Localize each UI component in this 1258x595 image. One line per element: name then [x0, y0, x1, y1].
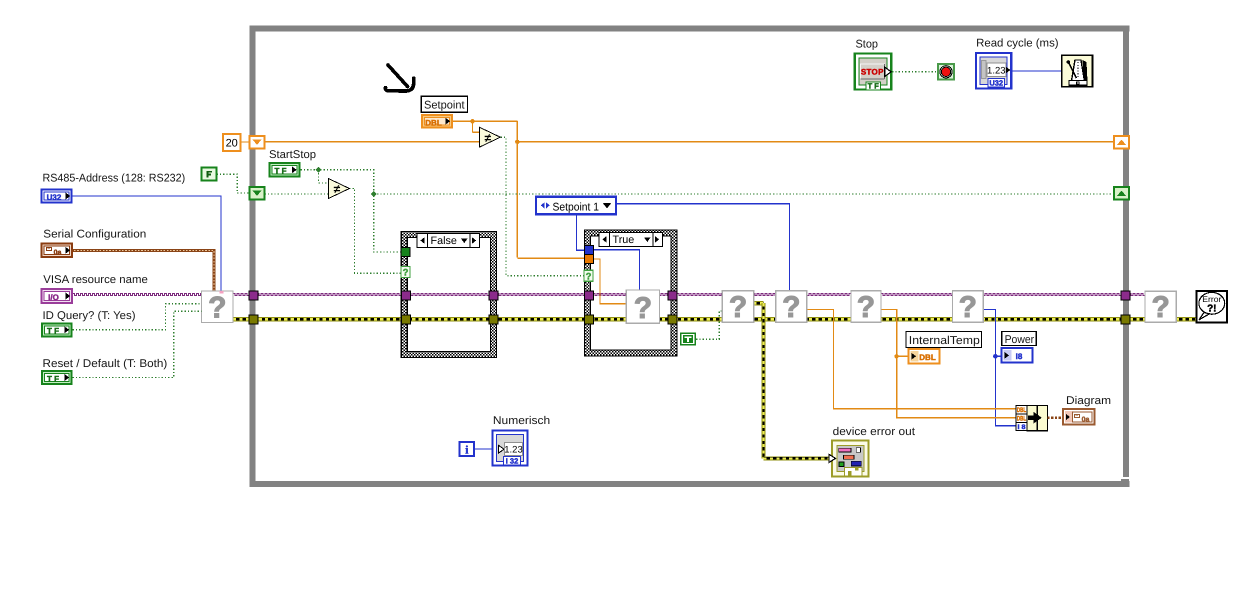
wire orange main (Setpoint loop wire) [517, 141, 1114, 143]
svg-text:Setpoint: Setpoint [424, 100, 465, 112]
label InternalTemp (boxed) [906, 332, 982, 348]
svg-text:U32: U32 [989, 79, 1003, 88]
control TF ID Query [41, 322, 73, 337]
svg-text:T F: T F [868, 82, 880, 91]
case selector True [599, 232, 663, 246]
wire error olive to handler [1130, 317, 1197, 319]
control VISA resource name [41, 288, 74, 304]
wire green dotted ID Query [73, 304, 202, 330]
svg-text:?: ? [403, 268, 409, 279]
tunnel False-left olive [402, 315, 411, 324]
wire green dotted shift-reg to not-equal 1 [265, 193, 329, 195]
svg-text:?: ? [586, 271, 592, 282]
svg-text:?: ? [782, 291, 800, 324]
svg-text:20: 20 [226, 138, 238, 150]
svg-text:DBL: DBL [919, 353, 936, 362]
svg-text:I 8: I 8 [1018, 424, 1026, 431]
svg-text:DBL: DBL [1017, 415, 1026, 422]
control TF Reset Default [41, 370, 73, 385]
subVI 5 ? [851, 291, 881, 322]
tunnel True-left selector ? [584, 270, 593, 281]
tunnel True-left purple [585, 291, 594, 300]
svg-text:DBL: DBL [425, 118, 442, 127]
tunnel True-right olive [668, 315, 677, 324]
not-equal node 1 [328, 179, 349, 199]
shift register left green [250, 187, 265, 200]
tunnel loop-right olive [1121, 315, 1130, 324]
simple error handler Error?! [1197, 291, 1228, 323]
svg-text:True: True [613, 234, 635, 246]
wire blue subVI6 to Power and bundle [983, 309, 1016, 425]
tunnel False-right olive [489, 315, 498, 324]
svg-text:ID Query? (T: Yes): ID Query? (T: Yes) [43, 310, 136, 322]
junction diamond StartStop 1 [316, 167, 322, 173]
svg-text:≠: ≠ [485, 131, 492, 145]
subVI 6 ? [953, 291, 984, 322]
wire blue inside True case [594, 250, 640, 290]
wire green dotted Stop to loop condition [892, 71, 938, 73]
svg-text:RS485-Address (128: RS232): RS485-Address (128: RS232) [43, 173, 186, 185]
indicator DBL InternalTemp [909, 349, 940, 363]
svg-text:False: False [431, 235, 457, 247]
svg-text:STOP: STOP [861, 68, 884, 77]
svg-text:VISA resource name: VISA resource name [43, 274, 148, 286]
svg-text:?: ? [208, 291, 226, 324]
wire orange subVI5 to InternalTemp and bundle [881, 309, 1016, 417]
svg-text:Serial Configuration: Serial Configuration [43, 228, 146, 240]
wire green dotted Reset Default [73, 311, 202, 377]
wire blue enum to subVI top [616, 204, 790, 291]
wire orange Setpoint branch [453, 120, 518, 122]
svg-text:?: ? [729, 291, 747, 324]
indicator device error out cluster [832, 441, 869, 477]
wire VISA purple left [73, 294, 202, 296]
subVI 7 (close) ? [1145, 291, 1176, 322]
subVI 2 (in True case) ? [626, 290, 659, 323]
shift register right orange [1114, 136, 1129, 149]
wait until next ms multiple node [1062, 55, 1093, 87]
shift register right green [1114, 187, 1129, 200]
wire green dotted T constant to subVI [696, 311, 723, 339]
constant 20 [223, 134, 241, 151]
control Serial Configuration cluster [41, 243, 74, 259]
shift register left orange [250, 136, 265, 149]
wire green dotted not-equal 1 output to False case selector [349, 188, 401, 273]
indicator Numerisch I32 [493, 431, 528, 466]
tunnel False-left green [401, 248, 410, 257]
wire orange subVI4 to bundle [807, 309, 1016, 408]
tunnel False-right purple [489, 291, 498, 300]
tunnel True-right purple [668, 291, 677, 300]
wire blue i terminal to Numerisch [475, 448, 492, 450]
subVI 1 (configure) ? [202, 291, 234, 323]
junction orange on main wire [515, 140, 519, 144]
tunnel True-left olive [585, 315, 594, 324]
svg-text:InternalTemp: InternalTemp [909, 335, 980, 347]
label Setpoint (boxed) [421, 96, 467, 112]
svg-text:?: ? [959, 291, 977, 324]
svg-text:Stop: Stop [856, 39, 879, 51]
wire blue Read cycle to wait node [1012, 70, 1062, 72]
svg-text:device error out: device error out [833, 426, 916, 438]
svg-text:0a: 0a [54, 249, 62, 256]
svg-text:Read cycle (ms): Read cycle (ms) [976, 38, 1059, 50]
wire green dotted not-equal 2 output to True case selector [501, 137, 584, 275]
junction orange at InternalTemp [894, 354, 898, 358]
subVI 4 ? [776, 291, 807, 322]
wire blue U32 to subVI [73, 196, 222, 291]
tunnel loop-left purple [249, 291, 258, 300]
wire brown dotted bundle to Diagram [1048, 416, 1064, 419]
case selector False [417, 234, 480, 248]
tunnel False-left purple [402, 291, 411, 300]
while loop border [250, 26, 1130, 32]
wire green dotted StartStop net [301, 170, 401, 252]
svg-text:I/O: I/O [48, 293, 59, 302]
constant F [202, 168, 217, 181]
tunnel False-left selector ? [401, 267, 410, 278]
wire green dotted F constant to shift register [217, 174, 250, 193]
loop condition terminal (stop sign) [938, 64, 954, 80]
control Read cycle numeric U32 [976, 53, 1011, 88]
hand-drawn arrow annotation [388, 65, 408, 87]
indicator I8 Power [1002, 348, 1033, 363]
wire error cluster olive main [233, 317, 1121, 319]
svg-text:I 32: I 32 [506, 457, 519, 466]
svg-text:Setpoint 1: Setpoint 1 [553, 201, 600, 213]
junction orange at Setpoint [470, 119, 474, 123]
control U32 RS485-Address [41, 189, 73, 204]
wire orange inside True case [594, 259, 627, 304]
case structure False [404, 234, 493, 354]
tunnel True-left orange [585, 255, 594, 264]
case structure True [587, 233, 674, 353]
wire VISA purple through loop [233, 294, 1146, 296]
svg-text:1.23: 1.23 [504, 444, 523, 455]
wire brown Serial Configuration [73, 250, 215, 291]
bundle node [1027, 405, 1037, 430]
constant T [680, 333, 696, 346]
svg-text:T F: T F [47, 374, 59, 383]
svg-text:T F: T F [47, 327, 59, 336]
svg-text:?: ? [857, 291, 875, 324]
svg-text:Numerisch: Numerisch [493, 415, 550, 427]
tunnel loop-right purple [1121, 291, 1130, 300]
svg-text:T F: T F [275, 167, 287, 176]
wire error olive branch to device error out [753, 301, 763, 303]
svg-text:?: ? [1152, 291, 1170, 324]
control Stop button [855, 54, 892, 90]
svg-text:1.23: 1.23 [987, 65, 1006, 76]
pink dot on subVI 1 [220, 291, 224, 294]
subVI 3 ? [722, 291, 753, 322]
svg-text:0a: 0a [1082, 416, 1090, 423]
tunnel loop-left olive [249, 315, 258, 324]
svg-text:U32: U32 [47, 193, 62, 202]
svg-text:≠: ≠ [334, 182, 341, 196]
tunnel True-left blue [585, 246, 594, 255]
svg-text:?: ? [634, 292, 652, 325]
label Power (boxed) [1002, 332, 1037, 346]
svg-text:Diagram: Diagram [1066, 395, 1111, 407]
loop iteration terminal i [460, 442, 475, 456]
junction blue at Power [993, 354, 998, 359]
indicator cluster Diagram [1063, 409, 1094, 425]
junction diamond StartStop 2 [371, 191, 377, 197]
svg-text:Power: Power [1005, 334, 1035, 346]
svg-text:Reset / Default (T: Both): Reset / Default (T: Both) [43, 358, 168, 370]
svg-text:I8: I8 [1016, 352, 1023, 361]
wire blue enum to True case tunnel [576, 214, 584, 250]
control TF StartStop [268, 162, 300, 178]
not-equal node 2 [479, 127, 500, 147]
enum constant Setpoint 1 [536, 197, 616, 215]
control DBL Setpoint [421, 114, 453, 129]
svg-text:StartStop: StartStop [269, 149, 316, 161]
svg-text:DBL: DBL [1017, 407, 1026, 414]
